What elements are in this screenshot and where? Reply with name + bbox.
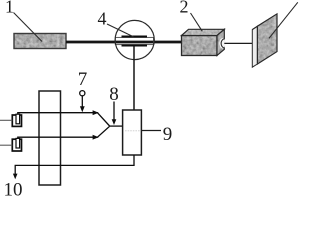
input wire B: [0, 144, 12, 146]
diode box A outer: [12, 115, 21, 126]
output wire from box 9 bottom: [15, 155, 134, 175]
svg-text:2: 2: [180, 0, 189, 17]
wire from modulator down to box 9: [133, 46, 135, 110]
beam line (thick) from block 1 to box 2: [66, 41, 182, 44]
small circle under label 7: [80, 91, 85, 96]
svg-text:7: 7: [78, 69, 88, 90]
laser source block 1 (hatched rectangle): [14, 34, 66, 49]
mirror 3 side face: [252, 26, 257, 67]
leader line for label 4: [107, 24, 134, 37]
modulator plate outline inside circle (component 4): [115, 37, 153, 44]
modulator top electrode bar: [122, 36, 148, 38]
beam A wire to combining vertex: [18, 113, 110, 126]
modulator bottom electrode bar: [122, 44, 148, 46]
beam B arrowhead: [93, 135, 99, 140]
leader line for label 2: [191, 13, 203, 31]
mirror 3 top edge band: [252, 14, 277, 30]
box 2 right face: [217, 29, 224, 55]
svg-text:9: 9: [163, 124, 173, 145]
arrow from label 8 down: [113, 102, 115, 120]
detector box 9: [123, 110, 142, 155]
svg-text:1: 1: [5, 0, 14, 17]
leader line for label 1: [14, 13, 43, 42]
combined beam into box 9: [110, 125, 123, 127]
box 2 front face: [182, 36, 218, 56]
diode box B inner element: [16, 138, 20, 148]
beam B wire to combining vertex: [18, 126, 110, 138]
svg-text:4: 4: [98, 8, 107, 28]
output arrowhead: [13, 174, 18, 180]
beam from box 2 to mirror 3: [224, 42, 252, 44]
leader line for label 3 (label outside frame): [269, 2, 298, 38]
arrow from circle 7 down: [81, 96, 83, 107]
circle enclosing component 4: [115, 20, 154, 59]
wire from box 9 to label 9: [141, 130, 161, 132]
faint marks inside box 9: [125, 130, 140, 131]
box 2 top face: [182, 29, 225, 35]
input wire A: [0, 119, 12, 121]
diode box A inner element: [16, 114, 20, 124]
mirror 3 front face: [257, 14, 277, 64]
beam A arrowhead: [93, 110, 99, 115]
diode box B outer: [12, 139, 21, 151]
box 2 exit aperture: [219, 38, 225, 48]
svg-text:10: 10: [4, 180, 23, 201]
beam combiner tall rectangle: [39, 91, 61, 185]
